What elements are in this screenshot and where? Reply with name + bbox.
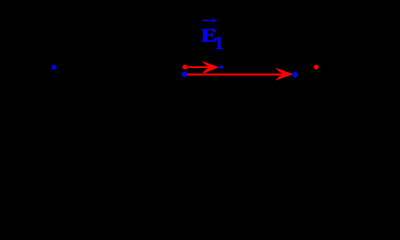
- long field vector E1 arrowhead: [275, 68, 293, 81]
- node dot (blue, end of short vector): [219, 65, 223, 69]
- vector hat shaft over E1: [202, 20, 214, 22]
- short field vector shaft: [188, 66, 212, 68]
- charge dot q1 (blue, left): [51, 65, 56, 70]
- charge dot (red, right): [314, 65, 319, 70]
- charge dot (red, middle): [183, 65, 188, 70]
- long field vector E1 shaft: [187, 74, 285, 76]
- vector hat arrowhead: [211, 18, 217, 24]
- svg-text:1: 1: [214, 33, 223, 53]
- charge dot (blue, start of long vector): [182, 72, 187, 77]
- short field vector arrowhead: [202, 61, 219, 74]
- node dot (blue, end of long vector): [292, 72, 297, 77]
